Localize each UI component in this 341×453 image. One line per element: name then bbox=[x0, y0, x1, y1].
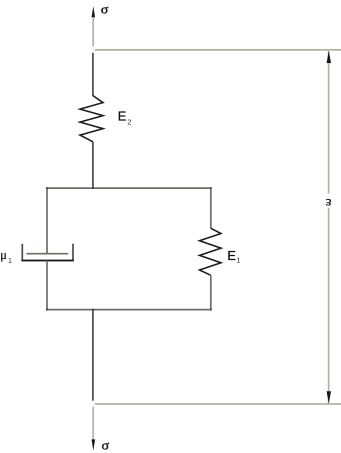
junction box bottom-right bbox=[210, 309, 212, 311]
svg-text:ε: ε bbox=[326, 195, 332, 210]
dashpot cup bottom bbox=[21, 260, 73, 262]
dimension arrowhead down bbox=[327, 391, 331, 403]
svg-text:1: 1 bbox=[236, 255, 240, 264]
svg-text:σ: σ bbox=[101, 1, 109, 16]
wire center mid bbox=[92, 142, 94, 189]
dashpot cup right wall bbox=[72, 244, 74, 261]
wire box top bbox=[46, 187, 212, 189]
strain dimension line upper segment bbox=[328, 51, 330, 194]
spring E2 bbox=[80, 96, 103, 142]
label E2 bbox=[118, 109, 132, 127]
stress arrow bottom (shaft) bbox=[92, 407, 94, 440]
label E1 bbox=[227, 248, 240, 264]
svg-text:2: 2 bbox=[127, 118, 131, 127]
junction box top-center bbox=[92, 187, 94, 189]
wire center lower bbox=[92, 310, 94, 401]
wire center upper bbox=[92, 53, 94, 96]
wire box right upper bbox=[210, 188, 212, 228]
dimension arrowhead up bbox=[327, 51, 331, 63]
label mu1 bbox=[0, 248, 12, 265]
stress arrow top (shaft) bbox=[92, 17, 94, 46]
svg-text:1: 1 bbox=[8, 256, 12, 265]
wire dashpot rod lower bbox=[46, 261, 48, 311]
stress arrow bottom (arrowhead) bbox=[92, 439, 96, 450]
svg-text:μ: μ bbox=[0, 248, 7, 262]
dashpot piston bbox=[26, 253, 68, 255]
strain dimension line lower segment bbox=[328, 208, 330, 403]
junction box bottom-left bbox=[46, 309, 48, 311]
junction box bottom-center bbox=[92, 309, 94, 311]
wire box bottom bbox=[46, 309, 212, 311]
junction box top-right bbox=[210, 187, 212, 189]
stress arrow top (arrowhead) bbox=[92, 6, 96, 17]
wire dashpot rod upper bbox=[46, 188, 48, 254]
wire top rail bbox=[95, 49, 341, 51]
svg-text:E: E bbox=[118, 109, 127, 124]
svg-text:σ: σ bbox=[102, 438, 110, 453]
svg-text:E: E bbox=[227, 248, 236, 263]
wire bottom rail bbox=[95, 403, 341, 405]
wire box right lower bbox=[210, 275, 212, 310]
spring E1 bbox=[200, 228, 222, 275]
junction box top-left bbox=[46, 187, 48, 189]
dashpot cup left wall bbox=[21, 244, 23, 261]
